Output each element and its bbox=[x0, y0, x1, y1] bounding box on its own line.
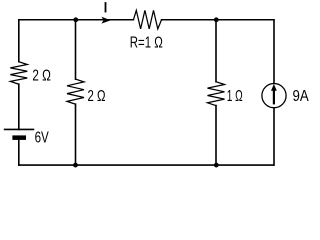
svg-text:2 Ω: 2 Ω bbox=[32, 68, 51, 85]
svg-text:9A: 9A bbox=[293, 88, 309, 105]
svg-text:2 Ω: 2 Ω bbox=[88, 88, 106, 105]
svg-text:1 Ω: 1 Ω bbox=[227, 88, 243, 105]
svg-text:R=1 Ω: R=1 Ω bbox=[130, 34, 163, 51]
svg-text:6V: 6V bbox=[35, 130, 49, 147]
